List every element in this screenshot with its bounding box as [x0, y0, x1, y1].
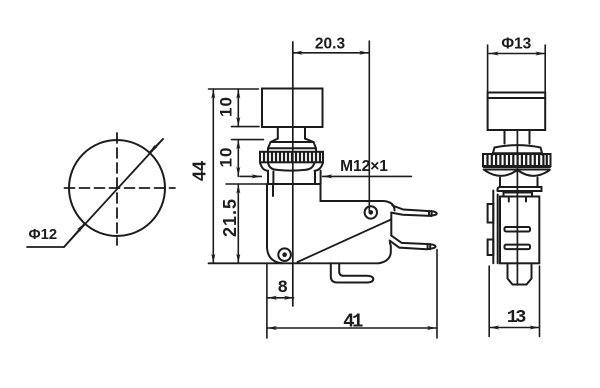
end view bottom stud — [508, 263, 532, 284]
svg-text:M12×1: M12×1 — [340, 158, 388, 175]
end view cap top face line — [488, 97, 546, 99]
svg-text:41: 41 — [343, 310, 363, 332]
end view neck — [505, 130, 530, 144]
end view flange bar — [498, 187, 542, 191]
svg-text:10: 10 — [217, 147, 236, 168]
side view knurl ribs — [264, 152, 320, 162]
end view phi13 extension right — [544, 45, 546, 93]
end view terminal upper — [505, 227, 531, 232]
svg-text:21.5: 21.5 — [220, 198, 240, 237]
front view circle (button face) — [69, 140, 165, 236]
dim 41 right extension — [436, 250, 438, 339]
screw hole lower left — [278, 248, 291, 261]
dim phi13 line — [489, 53, 545, 55]
body inner top line — [272, 184, 274, 196]
M12 arrow left — [240, 175, 261, 177]
diameter leader underline — [27, 246, 64, 248]
extension line body top — [226, 183, 267, 185]
diameter arrow upper — [149, 139, 163, 153]
svg-text:13: 13 — [507, 307, 527, 328]
extension line body bottom — [209, 262, 379, 264]
svg-text:10: 10 — [217, 96, 236, 117]
dim 8 left extension — [266, 263, 268, 338]
end view bracket tab lower — [488, 240, 494, 256]
svg-text:44: 44 — [190, 161, 210, 181]
diameter arrow lower — [64, 223, 85, 247]
screw hole upper right — [365, 206, 377, 218]
end view L bracket — [493, 191, 497, 264]
side view knurl band — [260, 152, 323, 163]
svg-text:20.3: 20.3 — [315, 36, 346, 53]
lever diagonal — [298, 220, 392, 263]
circle horizontal centerline — [65, 187, 176, 189]
terminal pin upper — [391, 205, 436, 216]
end view bracket tab upper — [488, 204, 494, 223]
microswitch body outline — [267, 184, 395, 263]
dim 13 left extension — [488, 266, 490, 337]
dim 13 line — [490, 327, 539, 329]
end view knurl band — [483, 154, 551, 166]
dim 44 line — [212, 89, 214, 263]
end view step bar — [504, 193, 533, 197]
end view button cap — [488, 93, 546, 131]
diameter leader diagonal — [64, 139, 163, 247]
end view nut dome — [492, 145, 542, 155]
svg-text:Φ13: Φ13 — [501, 35, 531, 52]
end view dark ring band — [484, 167, 551, 169]
end view phi13 extension left — [487, 45, 489, 93]
end view scallop arcs — [485, 170, 549, 175]
side view threaded bushing — [268, 171, 321, 184]
svg-text:8: 8 — [277, 278, 288, 298]
dim 20.3 line — [293, 52, 369, 54]
dim 10 lower line — [237, 140, 239, 177]
bent terminal hook — [331, 263, 374, 282]
end view collar — [500, 178, 538, 187]
side view neck — [271, 127, 314, 142]
end view centerline — [516, 130, 518, 285]
dim 21.5 line — [237, 184, 239, 263]
extension line button bottom — [232, 126, 260, 128]
side view nut top cap — [268, 142, 316, 152]
dim 10 upper line — [237, 89, 239, 127]
dim 20.3 right extension — [368, 41, 370, 212]
circle vertical centerline — [116, 133, 118, 245]
dim 8 line — [267, 297, 293, 299]
end view terminal lower — [505, 245, 531, 250]
dim 41 line — [267, 327, 436, 329]
side view nut scallop arcs — [260, 162, 323, 171]
extension line button top — [209, 88, 259, 90]
side view plunger centerline — [292, 42, 294, 306]
svg-text:Φ12: Φ12 — [29, 227, 58, 243]
extension line nut top — [232, 139, 264, 141]
end view main body — [500, 197, 539, 264]
side view button cap — [262, 89, 323, 128]
M12 leader right — [323, 175, 412, 177]
dim 13 right extension — [539, 266, 541, 337]
end view knurl ribs — [488, 154, 547, 166]
terminal pin lower — [390, 236, 436, 250]
end view step bar ticks — [509, 197, 526, 202]
